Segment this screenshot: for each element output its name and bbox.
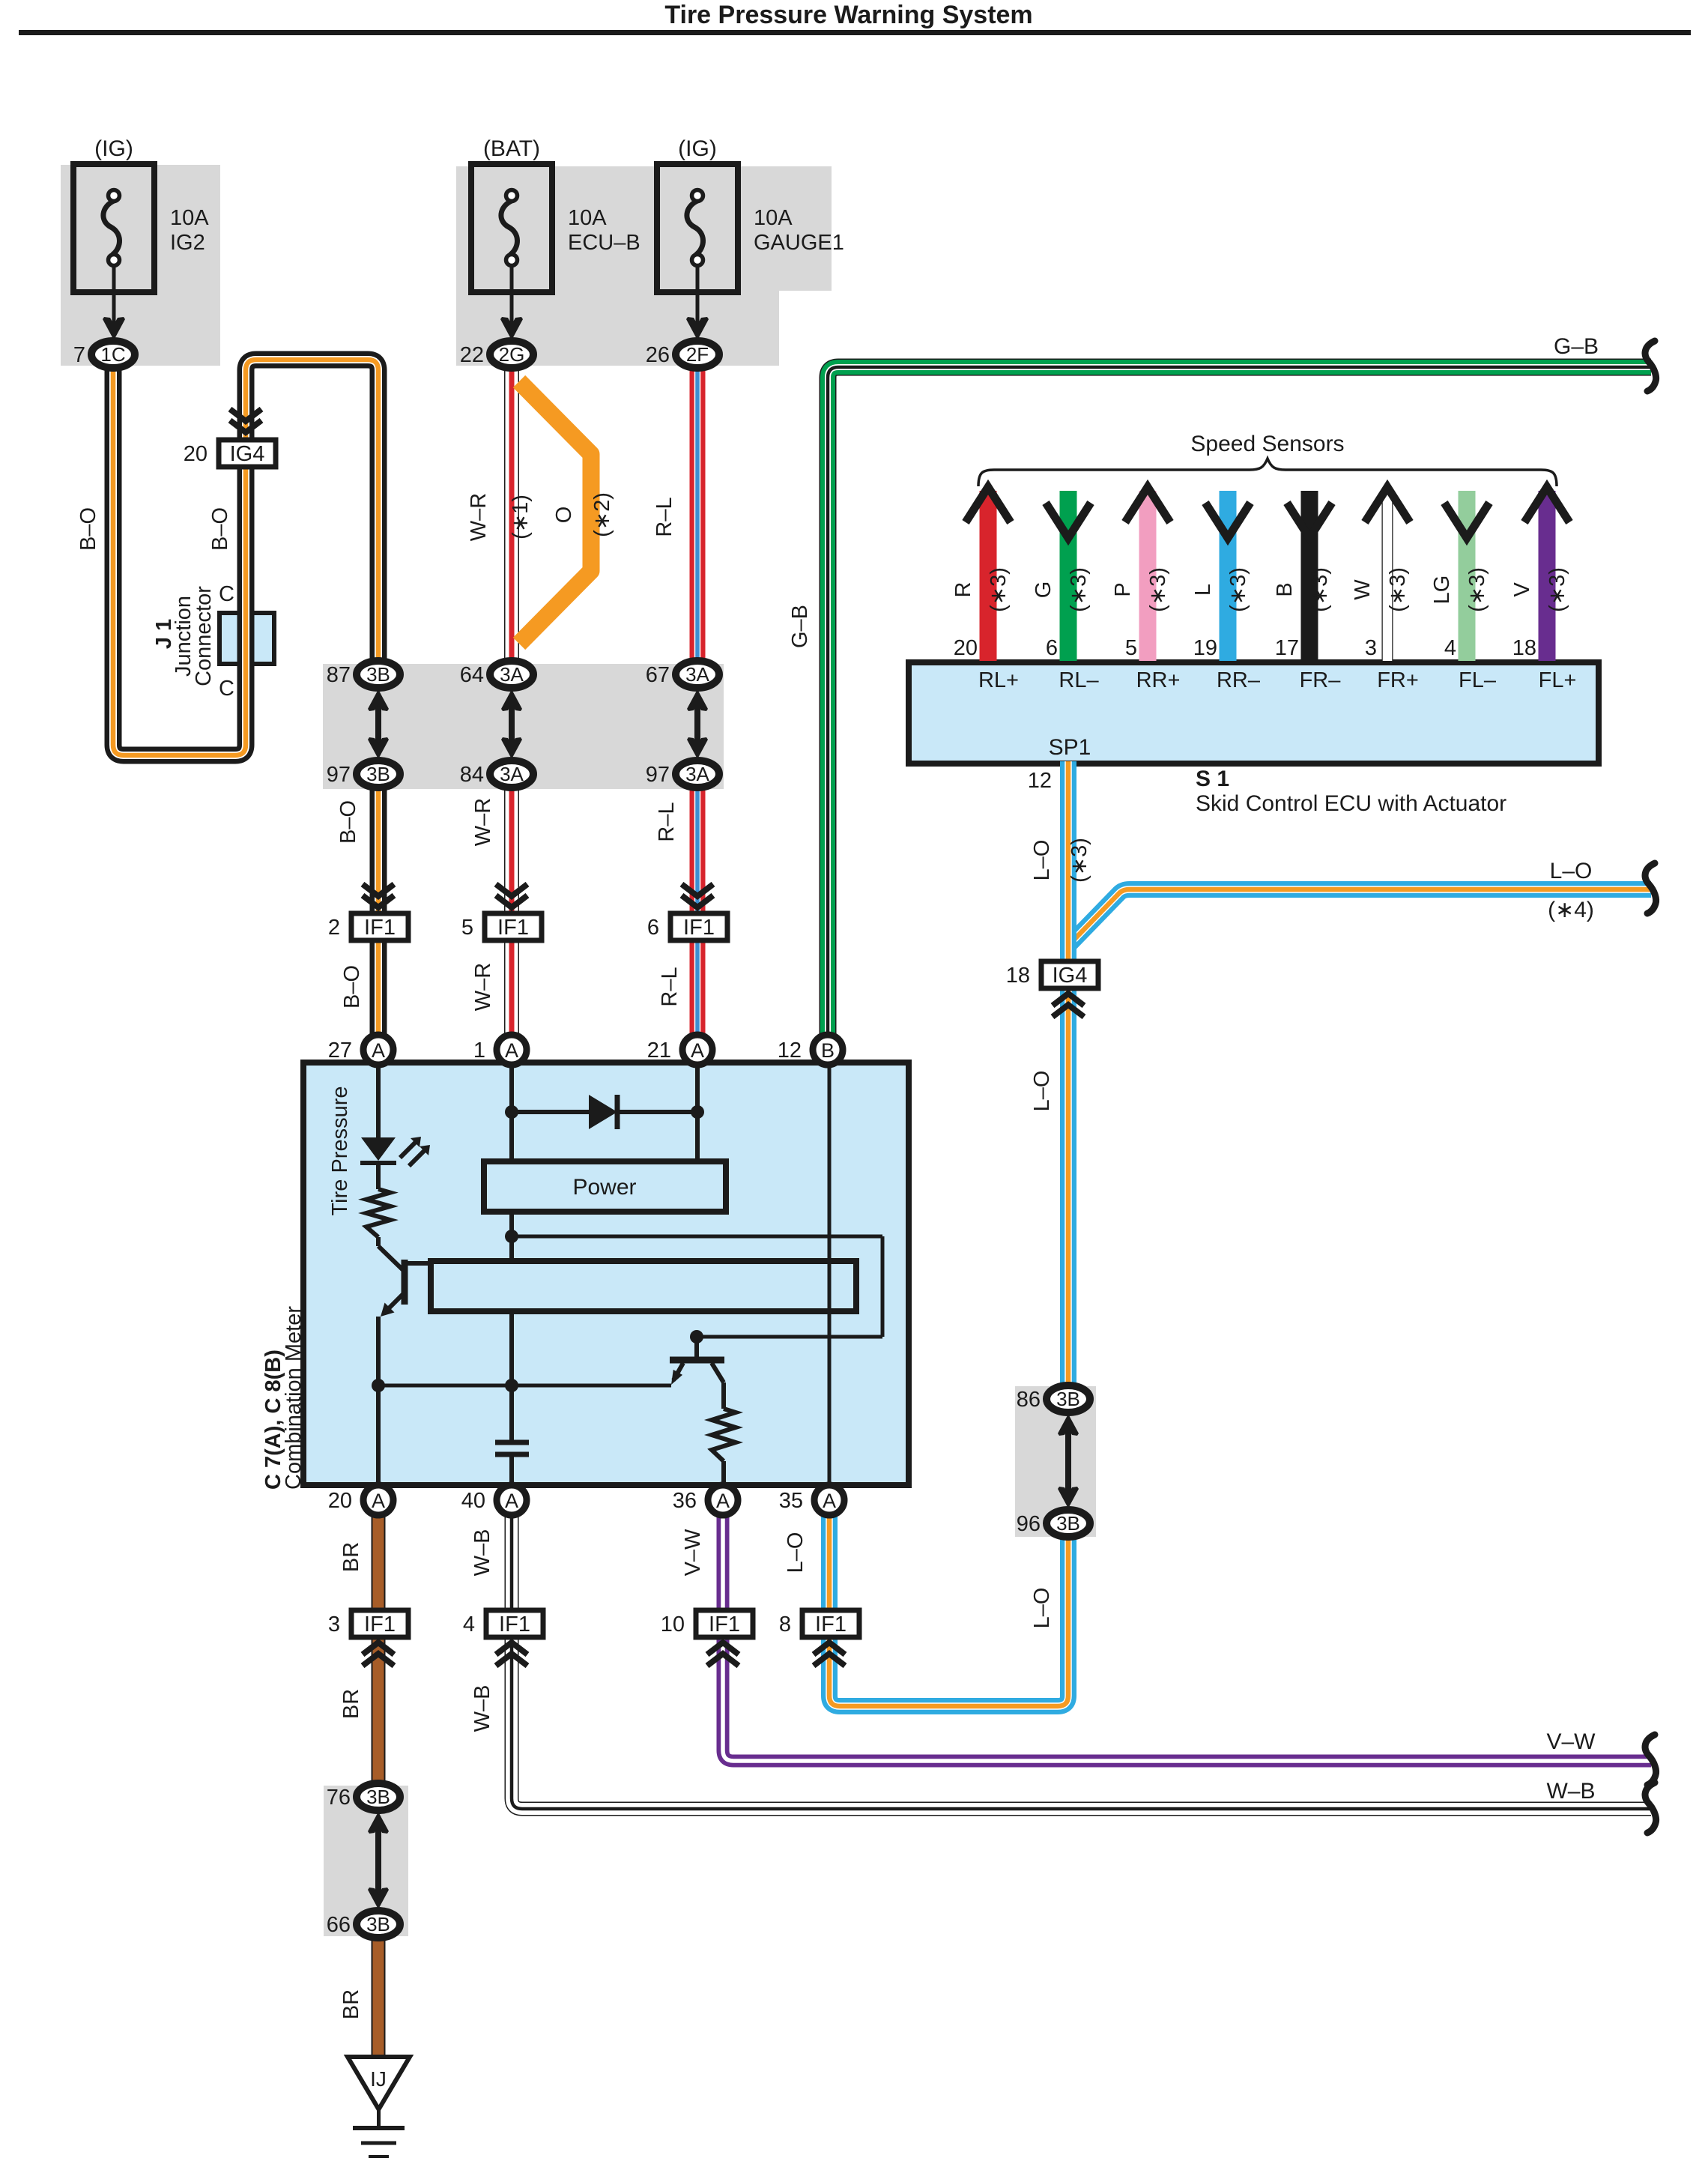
arrow from fuse ECU-B to connector 2G bbox=[500, 317, 523, 340]
svg-text:FL–: FL– bbox=[1459, 668, 1497, 692]
speed sensor wire L bbox=[1220, 491, 1237, 661]
chevrons above IF1 pin 6 bbox=[682, 884, 713, 907]
svg-text:6: 6 bbox=[1046, 636, 1058, 660]
LED tire pressure warning light bbox=[360, 1137, 430, 1166]
meter pin 35 A bbox=[814, 1485, 844, 1515]
svg-text:R–L: R–L bbox=[655, 802, 679, 841]
svg-text:10: 10 bbox=[661, 1613, 685, 1636]
break of wire W-B at right edge bbox=[1645, 1783, 1656, 1833]
power supply box bbox=[484, 1161, 726, 1212]
svg-text:2: 2 bbox=[328, 916, 340, 940]
meter pin 36 A bbox=[708, 1485, 738, 1515]
svg-text:A: A bbox=[716, 1490, 730, 1512]
wire O (*2) alternative from connector 2G to connector 64 3A bbox=[519, 381, 591, 644]
junction node at pin1 line and diode bbox=[505, 1105, 518, 1119]
gray background panel around connectors 76/66 3B bbox=[324, 1786, 408, 1936]
resistor R1 below LED bbox=[376, 1163, 381, 1189]
skid control ECU box S1 / SP1 bbox=[909, 662, 1599, 764]
speed sensor wire W bbox=[1382, 491, 1393, 661]
wire W-R from connector 84 3A through IF1 pin 5 to combination meter pin 1 bbox=[504, 783, 519, 1038]
svg-text:BR: BR bbox=[339, 1989, 363, 2019]
connector 2F bbox=[676, 341, 719, 368]
svg-text:IF1: IF1 bbox=[497, 916, 529, 940]
arrowhead down of speed sensor wire G bbox=[1046, 503, 1091, 538]
junction node below power box bbox=[505, 1230, 518, 1243]
svg-text:3: 3 bbox=[1365, 636, 1377, 660]
junction node at Q2 collector feedback bbox=[690, 1330, 703, 1344]
wire L-O (*4) branch to harness break bbox=[1068, 889, 1651, 946]
meter pin 20 A bbox=[363, 1485, 393, 1515]
arrowhead down of speed sensor wire B bbox=[1287, 503, 1332, 538]
capacitor C1 on pin 40 line bbox=[495, 1442, 529, 1454]
wire R-L from connector 97 3A through IF1 pin 6 to combination meter pin 21 bbox=[690, 783, 706, 1038]
chevrons above connector 20 IG4 bbox=[230, 409, 261, 432]
arrow from fuse GAUGE1 to connector 2F bbox=[686, 317, 709, 340]
svg-text:22: 22 bbox=[460, 343, 484, 367]
svg-text:86: 86 bbox=[1017, 1388, 1041, 1412]
svg-text:W–R: W–R bbox=[471, 963, 495, 1011]
svg-text:Tire Pressure: Tire Pressure bbox=[328, 1086, 352, 1216]
chevrons below IF1 pin 4 bbox=[496, 1642, 527, 1666]
svg-text:64: 64 bbox=[460, 663, 484, 687]
arrow between 64 3A and 84 3A bbox=[501, 689, 522, 759]
gray background panel around fuses ECU-B and GAUGE1 bbox=[456, 166, 832, 366]
svg-text:V–W: V–W bbox=[1546, 1729, 1596, 1754]
arrowhead down of speed sensor wire L bbox=[1205, 503, 1250, 538]
chevrons below IF1 pin 8 bbox=[814, 1642, 845, 1666]
svg-text:6: 6 bbox=[647, 916, 659, 940]
svg-text:Combination Meter: Combination Meter bbox=[282, 1306, 306, 1490]
connector IF1 pin 4 bbox=[486, 1610, 543, 1637]
svg-text:B: B bbox=[821, 1039, 835, 1062]
svg-text:4: 4 bbox=[1444, 636, 1456, 660]
svg-text:A: A bbox=[372, 1490, 385, 1512]
svg-text:Connector: Connector bbox=[192, 586, 216, 686]
wire R-L from connector 2F to connector 67 3A bbox=[690, 360, 706, 667]
svg-text:LG: LG bbox=[1430, 575, 1454, 605]
connector 1C bbox=[91, 341, 135, 368]
junction node on pin20 line bbox=[372, 1379, 385, 1392]
svg-text:3A: 3A bbox=[685, 663, 709, 686]
svg-text:FL+: FL+ bbox=[1539, 668, 1577, 692]
svg-text:R–L: R–L bbox=[652, 497, 676, 537]
arrowhead up of speed sensor wire R bbox=[966, 487, 1011, 522]
svg-text:87: 87 bbox=[327, 663, 351, 687]
ground IJ bbox=[348, 2057, 410, 2157]
svg-text:12: 12 bbox=[1028, 769, 1052, 793]
svg-text:A: A bbox=[505, 1039, 518, 1062]
svg-text:B–O: B–O bbox=[76, 507, 100, 551]
wire W-B from combination meter pin 40 through IF1 pin 4 to harness break bbox=[512, 1517, 1651, 1809]
svg-text:5: 5 bbox=[461, 916, 473, 940]
svg-text:3B: 3B bbox=[366, 663, 390, 686]
svg-text:21: 21 bbox=[647, 1039, 671, 1063]
svg-text:A: A bbox=[691, 1039, 704, 1062]
connector IF1 pin 2 bbox=[351, 913, 408, 940]
connector 67 3A bbox=[676, 661, 719, 688]
svg-text:B–O: B–O bbox=[208, 507, 232, 551]
wire W-R from connector 2G to connector 64 3A bbox=[504, 360, 519, 667]
svg-text:W–R: W–R bbox=[467, 493, 491, 541]
svg-text:IG2: IG2 bbox=[170, 231, 205, 255]
svg-text:10A: 10A bbox=[568, 206, 607, 230]
connector IF1 pin 10 bbox=[696, 1610, 753, 1637]
chevrons below connector 18 IG4 bbox=[1053, 994, 1084, 1017]
svg-text:3B: 3B bbox=[1056, 1512, 1080, 1535]
svg-text:ECU–B: ECU–B bbox=[568, 231, 640, 255]
svg-text:97: 97 bbox=[327, 763, 351, 787]
svg-text:RL–: RL– bbox=[1059, 668, 1099, 692]
svg-text:3: 3 bbox=[328, 1613, 340, 1636]
svg-text:3A: 3A bbox=[685, 763, 709, 785]
svg-text:G–B: G–B bbox=[1554, 334, 1599, 359]
svg-text:Tire Pressure Warning System: Tire Pressure Warning System bbox=[664, 1, 1032, 29]
svg-text:18: 18 bbox=[1006, 964, 1030, 988]
wire from meter pin 1 down through power supply bbox=[509, 1063, 514, 1440]
gray background panel around fuse IG2 and connector 1C bbox=[61, 165, 220, 366]
break of wire G-B at right edge bbox=[1645, 341, 1656, 391]
junction node at pin21 line and diode bbox=[691, 1105, 704, 1119]
svg-text:IG4: IG4 bbox=[230, 442, 265, 466]
transistor Q1 bbox=[378, 1237, 432, 1485]
wire from meter pin 21 down to power supply bbox=[695, 1063, 700, 1164]
gray background band around junction connectors 3B/3A bbox=[323, 664, 724, 789]
svg-text:C: C bbox=[219, 582, 234, 606]
svg-text:W: W bbox=[1351, 579, 1375, 600]
svg-text:S 1: S 1 bbox=[1196, 767, 1229, 791]
connector IF1 pin 3 bbox=[351, 1610, 408, 1637]
chevrons above IF1 pin 2 bbox=[363, 884, 394, 907]
svg-text:A: A bbox=[505, 1490, 518, 1512]
svg-text:FR–: FR– bbox=[1300, 668, 1342, 692]
svg-text:RL+: RL+ bbox=[978, 668, 1019, 692]
svg-text:66: 66 bbox=[327, 1913, 351, 1937]
arrow between 67 3A and 97 3A bbox=[687, 689, 708, 759]
combination meter box C7(A) C8(B) bbox=[303, 1063, 909, 1485]
svg-text:(∗3): (∗3) bbox=[1465, 567, 1489, 612]
svg-text:W–R: W–R bbox=[471, 798, 495, 846]
svg-text:3A: 3A bbox=[500, 663, 524, 686]
svg-text:W–B: W–B bbox=[470, 1529, 494, 1577]
svg-text:C: C bbox=[219, 677, 234, 701]
svg-text:IF1: IF1 bbox=[709, 1613, 740, 1636]
svg-text:B–O: B–O bbox=[336, 800, 360, 844]
connector 18 IG4 bbox=[1041, 961, 1098, 988]
svg-text:(IG): (IG) bbox=[94, 136, 133, 161]
svg-text:96: 96 bbox=[1017, 1512, 1041, 1536]
speed sensor wire R bbox=[980, 491, 997, 661]
arrow from fuse IG2 to connector 1C bbox=[103, 317, 125, 340]
svg-text:G–B: G–B bbox=[788, 605, 812, 648]
resistor R2 at Q2 collector bbox=[712, 1409, 736, 1461]
connector 76 3B bbox=[357, 1783, 400, 1810]
svg-text:B: B bbox=[1273, 582, 1297, 596]
svg-text:3B: 3B bbox=[366, 1786, 390, 1808]
fuse IG2 10A bbox=[73, 164, 154, 327]
svg-text:3B: 3B bbox=[366, 763, 390, 785]
connector 87 3B bbox=[357, 661, 400, 688]
svg-text:L–O: L–O bbox=[1030, 1588, 1054, 1629]
svg-text:A: A bbox=[823, 1490, 836, 1512]
svg-text:IJ: IJ bbox=[370, 2067, 387, 2091]
gray background panel around connectors 86/96 3B bbox=[1015, 1386, 1096, 1537]
svg-text:(∗3): (∗3) bbox=[1545, 567, 1569, 612]
svg-text:3B: 3B bbox=[366, 1913, 390, 1935]
svg-text:(∗3): (∗3) bbox=[1067, 567, 1091, 612]
svg-text:V: V bbox=[1510, 582, 1534, 597]
wire L-O from SP1 pin 12 down to connector 18 IG4 bbox=[1060, 761, 1076, 968]
svg-text:RR+: RR+ bbox=[1136, 668, 1181, 692]
svg-text:RR–: RR– bbox=[1217, 668, 1261, 692]
svg-text:3A: 3A bbox=[500, 763, 524, 785]
junction connector J1 box bbox=[219, 613, 274, 664]
svg-text:R–L: R–L bbox=[658, 967, 682, 1006]
svg-text:G: G bbox=[1032, 581, 1056, 599]
chevrons below IF1 pin 10 bbox=[707, 1642, 739, 1666]
svg-text:(∗3): (∗3) bbox=[1308, 567, 1332, 612]
meter pin 21 A bbox=[682, 1035, 712, 1065]
wire L-O from connector 18 IG4 down to connector 86 3B bbox=[1060, 983, 1076, 1403]
transistor Q2 bbox=[670, 1337, 724, 1409]
svg-text:(IG): (IG) bbox=[678, 136, 717, 161]
svg-text:IF1: IF1 bbox=[364, 916, 396, 940]
arrowhead down of speed sensor wire LG bbox=[1444, 503, 1489, 538]
svg-text:(BAT): (BAT) bbox=[483, 136, 540, 161]
connector 20 IG4 bbox=[219, 440, 276, 467]
svg-text:18: 18 bbox=[1512, 636, 1536, 660]
wire B-O from connector 1C through junction J1 and IG4 to connector 87 3B bbox=[113, 358, 378, 755]
title rule bbox=[19, 30, 1691, 35]
connector 2G bbox=[490, 341, 533, 368]
arrowhead up of speed sensor wire W bbox=[1365, 487, 1410, 522]
svg-text:26: 26 bbox=[646, 343, 670, 367]
svg-text:(∗3): (∗3) bbox=[1067, 838, 1091, 883]
svg-text:76: 76 bbox=[327, 1786, 351, 1810]
svg-text:(∗3): (∗3) bbox=[1226, 567, 1250, 612]
fuse ECU-B 10A bbox=[471, 164, 552, 327]
svg-text:P: P bbox=[1111, 582, 1135, 596]
svg-text:O: O bbox=[552, 507, 576, 524]
speed sensor wire LG bbox=[1459, 491, 1476, 661]
brace over speed sensors bbox=[978, 459, 1557, 486]
svg-text:GAUGE1: GAUGE1 bbox=[754, 231, 844, 255]
wire L-O from combination meter pin 35 through IF1 pin 8 to connector 96 3B bbox=[829, 1517, 1068, 1706]
svg-text:W–B: W–B bbox=[1546, 1779, 1595, 1804]
connector 96 3B bbox=[1047, 1510, 1090, 1537]
meter pin 40 A bbox=[497, 1485, 527, 1515]
svg-text:(∗3): (∗3) bbox=[1146, 567, 1170, 612]
svg-text:IF1: IF1 bbox=[499, 1613, 530, 1636]
svg-text:20: 20 bbox=[184, 442, 208, 466]
svg-text:20: 20 bbox=[954, 636, 978, 660]
speed sensor wire P bbox=[1139, 491, 1157, 661]
svg-text:3B: 3B bbox=[1056, 1388, 1080, 1410]
svg-text:10A: 10A bbox=[754, 206, 793, 230]
svg-text:R: R bbox=[951, 582, 975, 598]
svg-text:84: 84 bbox=[460, 763, 484, 787]
svg-text:1: 1 bbox=[473, 1039, 485, 1063]
svg-text:4: 4 bbox=[463, 1613, 475, 1636]
connector 97 3A bbox=[676, 761, 719, 788]
junction node on pin40 line bbox=[505, 1379, 518, 1392]
speed sensor wire B bbox=[1301, 491, 1318, 661]
wire from meter pin 27 to LED inside meter bbox=[376, 1063, 381, 1139]
chevrons above IF1 pin 5 bbox=[496, 884, 527, 907]
svg-text:L–O: L–O bbox=[1030, 840, 1054, 881]
svg-text:7: 7 bbox=[73, 343, 85, 367]
svg-text:(∗3): (∗3) bbox=[987, 567, 1011, 612]
svg-text:10A: 10A bbox=[170, 206, 209, 230]
svg-text:L: L bbox=[1191, 584, 1215, 596]
svg-text:8: 8 bbox=[779, 1613, 791, 1636]
svg-text:V–W: V–W bbox=[681, 1529, 705, 1576]
svg-text:IF1: IF1 bbox=[683, 916, 715, 940]
svg-text:FR+: FR+ bbox=[1377, 668, 1419, 692]
svg-text:40: 40 bbox=[461, 1489, 485, 1513]
svg-text:67: 67 bbox=[646, 663, 670, 687]
svg-text:Skid Control ECU with Actuator: Skid Control ECU with Actuator bbox=[1196, 791, 1506, 816]
svg-text:IF1: IF1 bbox=[364, 1613, 396, 1636]
arrowhead up of speed sensor wire P bbox=[1125, 487, 1170, 522]
svg-text:27: 27 bbox=[328, 1039, 352, 1063]
svg-text:BR: BR bbox=[339, 1542, 363, 1572]
svg-text:2G: 2G bbox=[499, 343, 525, 366]
svg-text:19: 19 bbox=[1193, 636, 1217, 660]
svg-text:(∗1): (∗1) bbox=[509, 495, 533, 540]
connector 66 3B bbox=[357, 1911, 400, 1938]
break of wire L-O (*4) at right edge bbox=[1645, 863, 1656, 913]
connector IF1 pin 8 bbox=[802, 1610, 859, 1637]
svg-text:B–O: B–O bbox=[340, 965, 364, 1009]
feedback line from below power box to transistor Q2 bbox=[512, 1236, 882, 1337]
chevrons below IF1 pin 3 bbox=[363, 1642, 394, 1666]
connector 97 3B bbox=[357, 761, 400, 788]
svg-text:L–O: L–O bbox=[1550, 859, 1593, 883]
svg-text:35: 35 bbox=[779, 1489, 803, 1513]
arrow between 86 3B and 96 3B bbox=[1058, 1414, 1079, 1508]
connector 86 3B bbox=[1047, 1385, 1090, 1412]
connector 84 3A bbox=[490, 761, 533, 788]
svg-text:IF1: IF1 bbox=[815, 1613, 847, 1636]
wire BR from combination meter pin 20 through IF1 pin 3 to connector 76 3B bbox=[372, 1517, 386, 1792]
connector 64 3A bbox=[490, 661, 533, 688]
svg-text:20: 20 bbox=[328, 1489, 352, 1513]
speed sensor wire V bbox=[1539, 491, 1556, 661]
arrow between 87 3B and 97 3B bbox=[368, 689, 389, 759]
fuse GAUGE1 10A bbox=[657, 164, 738, 327]
wire BR from connector 66 3B to ground IJ bbox=[372, 1929, 386, 2059]
svg-text:97: 97 bbox=[646, 763, 670, 787]
connector IF1 pin 6 bbox=[670, 913, 727, 940]
connector IF1 pin 5 bbox=[485, 913, 542, 940]
wire G-B from combination meter pin 12 up and right to harness break bbox=[828, 367, 1651, 1040]
svg-text:Power: Power bbox=[572, 1175, 636, 1200]
svg-text:(∗3): (∗3) bbox=[1386, 567, 1410, 612]
meter pin 1 A bbox=[497, 1035, 527, 1065]
diode D1 bbox=[512, 1095, 697, 1129]
wire B-O from connector 97 3B through IF1 pin 2 to combination meter pin 27 bbox=[370, 783, 387, 1038]
svg-text:1C: 1C bbox=[100, 343, 125, 366]
svg-text:L–O: L–O bbox=[784, 1532, 808, 1574]
svg-text:17: 17 bbox=[1275, 636, 1299, 660]
svg-text:A: A bbox=[372, 1039, 385, 1062]
svg-text:SP1: SP1 bbox=[1049, 735, 1091, 760]
svg-text:(∗4): (∗4) bbox=[1548, 898, 1594, 922]
svg-text:W–B: W–B bbox=[470, 1685, 494, 1732]
svg-text:2F: 2F bbox=[686, 343, 709, 366]
svg-text:5: 5 bbox=[1125, 636, 1137, 660]
meter pin 12 B bbox=[813, 1035, 843, 1065]
speed sensor wire G bbox=[1060, 491, 1077, 661]
wire from meter pin 12 B to meter pin 35 A bbox=[828, 1063, 832, 1485]
svg-text:Speed Sensors: Speed Sensors bbox=[1190, 432, 1344, 456]
arrowhead up of speed sensor wire V bbox=[1524, 487, 1569, 522]
svg-text:36: 36 bbox=[673, 1489, 697, 1513]
svg-text:L–O: L–O bbox=[1030, 1071, 1054, 1112]
arrow between 76 3B and 66 3B bbox=[368, 1812, 389, 1909]
svg-text:12: 12 bbox=[778, 1039, 802, 1063]
svg-text:IG4: IG4 bbox=[1053, 964, 1088, 988]
svg-text:(∗2): (∗2) bbox=[590, 492, 614, 537]
meter pin 27 A bbox=[363, 1035, 393, 1065]
internal logic box bbox=[431, 1261, 856, 1311]
wire V-W from combination meter pin 36 through IF1 pin 10 to harness break bbox=[723, 1517, 1651, 1761]
svg-text:BR: BR bbox=[339, 1689, 363, 1719]
break of wire V-W at right edge bbox=[1645, 1735, 1656, 1785]
bottom rail from Q1 emitter to Q2 emitter bbox=[378, 1384, 671, 1388]
